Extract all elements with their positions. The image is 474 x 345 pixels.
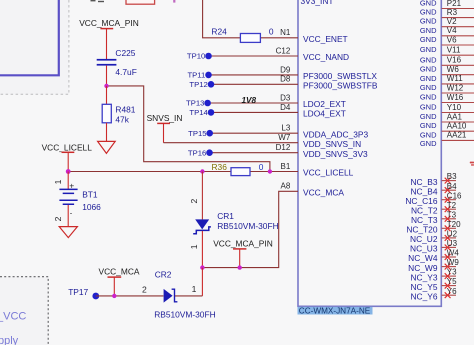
- test point TP10 dot: [205, 53, 212, 60]
- power symbol VCC_MCA: [108, 277, 122, 296]
- no-connect pin T3 / net NC_T3: [411, 210, 457, 225]
- svg-text:VDD_SNVS_3V3: VDD_SNVS_3V3: [303, 149, 368, 159]
- test point TP13 wire: [208, 102, 298, 104]
- GND pin Y10: [420, 103, 474, 113]
- wire TP17 to CR2 anode: [96, 295, 164, 297]
- svg-text:B3: B3: [447, 172, 457, 181]
- no-connect pin B4 / net NC_B4: [411, 182, 458, 197]
- IC part number label CC-WMX-JN7A-NE (highlighted): [298, 307, 373, 316]
- wire C225 to junction: [106, 66, 108, 86]
- pin N1 / net VCC_ENET: [280, 28, 348, 44]
- svg-text:Y3: Y3: [447, 268, 457, 277]
- svg-text:PF3000_SWBSTFB: PF3000_SWBSTFB: [303, 81, 378, 91]
- pin D12 / net VDD_SNVS_3V3: [276, 143, 368, 159]
- GND pin AA21: [420, 130, 474, 140]
- battery BT1 wire from junction: [67, 172, 69, 190]
- test point TP10 wire: [209, 55, 299, 57]
- svg-text:GND: GND: [420, 17, 437, 26]
- svg-text:1: 1: [189, 244, 199, 249]
- svg-text:D12: D12: [276, 143, 291, 152]
- svg-text:GND: GND: [420, 0, 437, 8]
- capacitor C225: [97, 59, 117, 66]
- svg-text:BT1: BT1: [82, 189, 98, 199]
- power symbol VCC_MCA_PIN (bottom): [233, 249, 246, 268]
- svg-text:GND: GND: [420, 139, 437, 148]
- svg-text:SNVS_IN: SNVS_IN: [147, 113, 183, 123]
- svg-text:GND: GND: [420, 93, 437, 102]
- svg-text:VDD_SNVS_IN: VDD_SNVS_IN: [303, 139, 361, 149]
- svg-text:V4: V4: [447, 26, 457, 35]
- GND pin R3: [420, 8, 474, 18]
- wire R36 junction down to CR1: [201, 172, 203, 220]
- svg-text:R481: R481: [115, 104, 135, 114]
- cursor/X remnant at right edge: [470, 162, 474, 166]
- svg-text:C16: C16: [447, 191, 462, 200]
- svg-text:R36: R36: [212, 162, 228, 172]
- hierarchical sheet dashed border (top-left): [0, 0, 69, 94]
- pin L3 / net VDDA_ADC_3P3: [281, 124, 368, 140]
- wire CR2 cathode to junction column: [175, 295, 202, 297]
- svg-text:AA21: AA21: [447, 131, 467, 140]
- svg-text:T20: T20: [447, 220, 461, 229]
- svg-text:TP12: TP12: [189, 80, 207, 89]
- resistor R24: [240, 34, 260, 43]
- ground symbol below R481: [98, 141, 116, 153]
- test point TP15 wire: [210, 132, 298, 134]
- svg-text:0: 0: [259, 162, 264, 172]
- svg-text:VCC_MCA_PIN: VCC_MCA_PIN: [79, 18, 139, 28]
- no-connect pin W4 / net NC_W4: [408, 249, 459, 264]
- svg-text:D9: D9: [280, 65, 291, 74]
- svg-text:W7: W7: [278, 133, 291, 142]
- svg-text:D4: D4: [280, 103, 291, 112]
- svg-text:W11: W11: [447, 74, 463, 83]
- resistor R481: [102, 104, 111, 123]
- svg-text:2: 2: [142, 285, 147, 295]
- svg-text:NC_T20: NC_T20: [406, 225, 438, 235]
- svg-text:RB510VM-30FH: RB510VM-30FH: [154, 309, 215, 319]
- pin A8 / net VCC_MCA: [281, 182, 345, 198]
- GND pin AA10: [420, 121, 474, 131]
- diode CR2 (schottky, pointing right): [164, 289, 178, 303]
- svg-text:D3: D3: [280, 93, 291, 102]
- svg-text:4.7uF: 4.7uF: [115, 67, 136, 77]
- no-connect pin U3 / net NC_U3: [410, 239, 458, 254]
- svg-text:0: 0: [269, 26, 274, 36]
- svg-text:Y10: Y10: [447, 103, 462, 112]
- svg-text:1: 1: [53, 179, 63, 184]
- svg-text:W6: W6: [447, 65, 460, 74]
- svg-text:V16: V16: [447, 56, 462, 65]
- GND pin V6: [420, 35, 474, 45]
- ground symbol below BT1: [59, 227, 77, 238]
- svg-text:Y6: Y6: [447, 287, 457, 296]
- pin C12 / net VCC_NAND: [276, 46, 349, 62]
- test point TP13 dot: [204, 100, 211, 107]
- cut-off junction dot remnant (top edge): [173, 0, 175, 3]
- pin D8 / net PF3000_SWBSTFB: [280, 75, 378, 91]
- pin W7 / net VDD_SNVS_IN: [278, 133, 361, 149]
- svg-text:VCC_LICELL: VCC_LICELL: [303, 168, 354, 178]
- svg-text:VCC_ENET: VCC_ENET: [303, 34, 348, 44]
- test point TP12 dot: [208, 81, 215, 88]
- test point TP14 dot: [208, 109, 215, 116]
- svg-text:N1: N1: [280, 28, 291, 37]
- wire junction to SNVS column and R36 right: [107, 86, 270, 172]
- svg-text:AA1: AA1: [447, 112, 463, 121]
- cut-off text remnant (top edge): [91, 0, 105, 2]
- wire junction to R481: [106, 86, 108, 104]
- svg-text:T2: T2: [447, 201, 457, 210]
- svg-text:NC_Y3: NC_Y3: [411, 272, 438, 282]
- battery BT1 plates: [59, 189, 77, 205]
- svg-text:C12: C12: [276, 46, 291, 55]
- no-connect pin T2 / net NC_T2: [411, 201, 457, 216]
- svg-text:GND: GND: [420, 65, 437, 74]
- svg-text:U3: U3: [447, 239, 458, 248]
- hierarchical sheet dashed border (bottom-left): [0, 277, 48, 345]
- svg-text:A8: A8: [281, 182, 291, 191]
- svg-text:GND: GND: [420, 8, 437, 17]
- svg-text:AA10: AA10: [447, 122, 467, 131]
- svg-text:-: -: [70, 209, 73, 218]
- junction dot left of R36: [200, 169, 204, 173]
- svg-text:C225: C225: [115, 48, 135, 58]
- svg-text:VCC_MCA: VCC_MCA: [99, 267, 140, 277]
- svg-text:VCC_MCA_PIN: VCC_MCA_PIN: [213, 238, 273, 248]
- svg-text:NC_C16: NC_C16: [405, 196, 437, 206]
- svg-text:1066: 1066: [82, 202, 101, 212]
- svg-text:W9: W9: [447, 258, 460, 267]
- svg-text:LDO4_EXT: LDO4_EXT: [303, 109, 346, 119]
- test point TP11 dot: [205, 72, 212, 79]
- wire CR1 to junction: [201, 231, 203, 268]
- svg-text:TP13: TP13: [186, 99, 204, 108]
- svg-text:P21: P21: [447, 0, 462, 8]
- svg-text:1V8: 1V8: [242, 96, 257, 105]
- svg-text:GND: GND: [420, 45, 437, 54]
- junction dot CR1 bottom: [200, 265, 204, 269]
- pin D4 / net LDO4_EXT: [280, 103, 346, 119]
- no-connect pin B3 / net NC_B3: [411, 172, 458, 187]
- no-connect pin Y5 / net NC_Y5: [411, 277, 458, 292]
- svg-text:V6: V6: [447, 35, 457, 44]
- svg-text:47k: 47k: [115, 114, 129, 124]
- GND pin W6: [420, 65, 474, 75]
- wire SNVS_IN to pin W7: [164, 142, 299, 144]
- svg-text:V2: V2: [447, 17, 457, 26]
- svg-text:GND: GND: [420, 55, 437, 64]
- GND pin V2: [420, 17, 474, 27]
- GND pin V4: [420, 26, 474, 36]
- junction dot VCC_MCA tap: [112, 294, 116, 298]
- no-connect pin U2 / net NC_U2: [410, 230, 458, 245]
- GND pin V16: [420, 55, 474, 65]
- svg-text:GND: GND: [420, 26, 437, 35]
- test point TP16 wire: [210, 152, 299, 154]
- pin D9 / net PF3000_SWBSTLX: [280, 65, 377, 81]
- resistor R36: [231, 168, 250, 176]
- svg-text:GND: GND: [420, 103, 437, 112]
- no-connect pin C16 / net NC_C16: [405, 191, 462, 206]
- svg-text:V11: V11: [447, 46, 461, 55]
- svg-text:TP15: TP15: [188, 129, 206, 138]
- GND pin W12: [420, 83, 474, 93]
- svg-text:Y5: Y5: [447, 277, 457, 286]
- svg-text:VCC_NAND: VCC_NAND: [303, 52, 349, 62]
- no-connect pin T20 / net NC_T20: [406, 220, 461, 235]
- svg-text:W4: W4: [447, 249, 460, 258]
- svg-text:TP11: TP11: [187, 71, 205, 80]
- GND pin P21: [420, 0, 474, 9]
- test point TP16 dot: [206, 149, 213, 156]
- svg-text:NC_W9: NC_W9: [408, 263, 438, 273]
- svg-text:R3: R3: [447, 8, 458, 17]
- test point TP17 dot: [92, 293, 99, 300]
- svg-text:NC_Y6: NC_Y6: [411, 291, 438, 301]
- junction dot VCC_MCA_PIN tap: [238, 265, 242, 269]
- svg-text:VCC_LICELL: VCC_LICELL: [42, 142, 93, 152]
- svg-text:GND: GND: [420, 74, 437, 83]
- wire BT1 to ground: [67, 205, 69, 227]
- svg-text:TP16: TP16: [188, 148, 206, 157]
- diode CR1 (schottky, pointing down): [193, 219, 211, 233]
- sheet symbol blue corner (top-left): [0, 0, 59, 75]
- GND pin W11: [420, 74, 474, 84]
- GND pin AA1: [420, 112, 474, 122]
- adjacent sheet area tint (bottom-left): [0, 277, 48, 345]
- GND pin W16: [420, 93, 474, 103]
- svg-text:GND: GND: [420, 35, 437, 44]
- svg-text:TP10: TP10: [187, 52, 205, 61]
- test point TP11 wire: [209, 74, 299, 76]
- svg-text:R24: R24: [211, 26, 227, 36]
- power symbol VCC_LICELL: [62, 152, 75, 171]
- svg-text:L3: L3: [281, 124, 290, 133]
- svg-text:VDDA_ADC_3P3: VDDA_ADC_3P3: [303, 129, 369, 139]
- wire R24 to pin N1: [260, 37, 298, 39]
- svg-text:pply: pply: [0, 335, 19, 345]
- pin B1 / net VCC_LICELL: [281, 162, 354, 178]
- wire net VCC_LICELL to pin B1: [68, 171, 298, 173]
- wire junction down to CR2: [201, 268, 203, 296]
- svg-text:U2: U2: [447, 230, 458, 239]
- pin D3 / net LDO2_EXT: [280, 93, 346, 109]
- GND pin V11: [420, 45, 474, 55]
- svg-text:2: 2: [53, 216, 63, 221]
- wire pin A8 to CR1/CR2 junction: [202, 191, 298, 267]
- svg-text:TP17: TP17: [68, 287, 88, 297]
- junction dot at battery: [66, 169, 71, 174]
- svg-text:GND: GND: [420, 112, 437, 121]
- svg-text:NC_T3: NC_T3: [411, 215, 438, 225]
- test point TP15 dot: [206, 130, 213, 137]
- svg-text:NC_W4: NC_W4: [408, 253, 438, 263]
- svg-text:NC_T2: NC_T2: [411, 205, 438, 215]
- svg-text:NC_Y5: NC_Y5: [411, 282, 438, 292]
- svg-text:CC-WMX-JN7A-NE: CC-WMX-JN7A-NE: [299, 307, 371, 316]
- svg-text:T3: T3: [447, 210, 457, 219]
- wire 3V3_INT feed down to R24: [203, 0, 241, 38]
- svg-text:GND: GND: [420, 130, 437, 139]
- svg-text:NC_B4: NC_B4: [411, 186, 438, 196]
- wire R481 to ground: [106, 123, 108, 142]
- svg-text:NC_U3: NC_U3: [410, 244, 438, 254]
- test point TP14 wire: [211, 111, 298, 113]
- svg-text:D8: D8: [280, 75, 291, 84]
- svg-text:3V3_INT: 3V3_INT: [301, 0, 334, 6]
- svg-text:NC_U2: NC_U2: [410, 234, 438, 244]
- svg-text:TP14: TP14: [189, 108, 208, 117]
- no-connect pin Y6 / net NC_Y6: [411, 287, 458, 302]
- no-connect pin Y3 / net NC_Y3: [411, 268, 458, 283]
- svg-text:GND: GND: [420, 83, 437, 92]
- svg-text:_VCC: _VCC: [0, 311, 26, 323]
- svg-text:VCC_MCA: VCC_MCA: [303, 188, 344, 198]
- svg-text:NC_B3: NC_B3: [411, 177, 438, 187]
- adjacent sheet area tint (top-left): [0, 0, 69, 94]
- power symbol VCC_MCA_PIN (top): [100, 29, 113, 59]
- svg-text:GND: GND: [420, 121, 437, 130]
- svg-text:W12: W12: [447, 83, 464, 92]
- svg-text:CR2: CR2: [155, 269, 172, 279]
- junction dot at C225/R481: [104, 84, 108, 88]
- svg-text:2: 2: [189, 199, 199, 204]
- cut-off resistor box remnant (top edge): [126, 0, 155, 4]
- svg-text:1: 1: [192, 284, 197, 294]
- svg-text:B1: B1: [281, 162, 291, 171]
- power symbol SNVS_IN: [157, 123, 170, 142]
- svg-text:W16: W16: [447, 93, 464, 102]
- svg-text:CR1: CR1: [217, 211, 234, 221]
- svg-text:B4: B4: [447, 182, 457, 191]
- test point TP12 wire: [211, 83, 298, 85]
- IC module CC-WMX-JN7A-NE body: [298, 0, 441, 306]
- no-connect pin W9 / net NC_W9: [408, 258, 459, 273]
- junction dot right of R36: [268, 169, 272, 173]
- svg-text:RB510VM-30FH: RB510VM-30FH: [217, 221, 278, 231]
- svg-text:+: +: [69, 181, 74, 191]
